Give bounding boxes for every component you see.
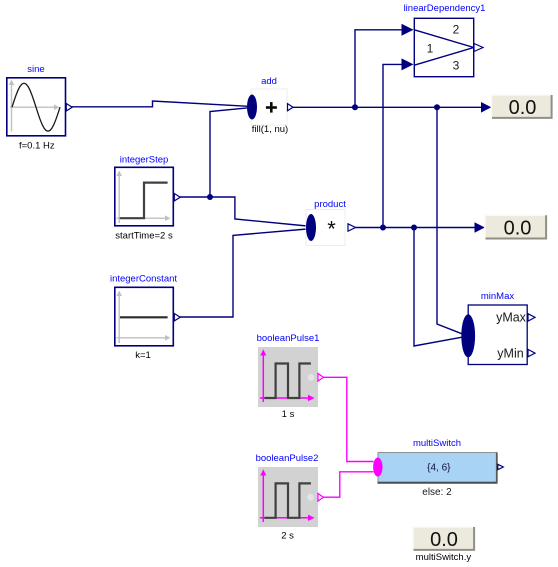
svg-text:add: add <box>261 76 277 87</box>
svg-text:multiSwitch.y: multiSwitch.y <box>416 552 472 563</box>
svg-text:fill(1, nu): fill(1, nu) <box>252 124 288 135</box>
svg-text:3: 3 <box>453 59 460 73</box>
svg-text:yMax: yMax <box>496 311 527 325</box>
svg-text:1: 1 <box>427 42 434 56</box>
svg-text:yMin: yMin <box>497 347 523 361</box>
svg-text:1 s: 1 s <box>282 409 295 420</box>
svg-text:booleanPulse2: booleanPulse2 <box>256 453 319 464</box>
svg-text:sine: sine <box>27 64 44 75</box>
svg-text:2 s: 2 s <box>281 531 294 542</box>
svg-text:*: * <box>327 217 336 242</box>
svg-text:minMax: minMax <box>481 291 515 302</box>
svg-text:0.0: 0.0 <box>509 97 537 119</box>
svg-text:k=1: k=1 <box>135 350 151 361</box>
svg-text:linearDependency1: linearDependency1 <box>404 3 486 14</box>
svg-text:startTime=2 s: startTime=2 s <box>115 231 173 242</box>
svg-text:0.0: 0.0 <box>430 529 458 551</box>
svg-text:integerStep: integerStep <box>120 155 169 166</box>
svg-text:f=0.1 Hz: f=0.1 Hz <box>19 141 55 152</box>
svg-text:multiSwitch: multiSwitch <box>413 438 461 449</box>
svg-text:{4, 6}: {4, 6} <box>427 463 451 474</box>
svg-text:booleanPulse1: booleanPulse1 <box>257 333 320 344</box>
svg-text:product: product <box>314 199 346 210</box>
svg-text:else: 2: else: 2 <box>422 487 452 498</box>
svg-text:2: 2 <box>453 23 460 37</box>
svg-text:0.0: 0.0 <box>504 217 532 239</box>
svg-text:integerConstant: integerConstant <box>110 274 177 285</box>
